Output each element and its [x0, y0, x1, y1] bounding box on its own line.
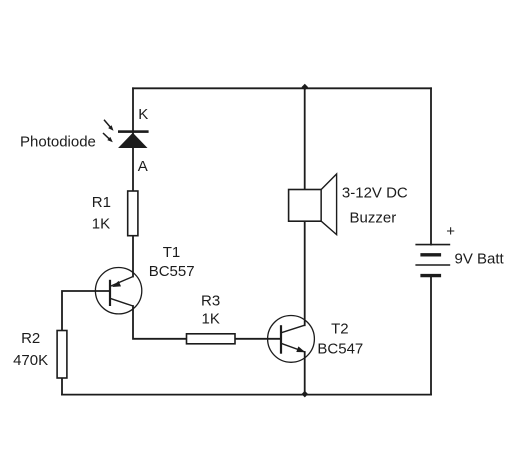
photodiode light arrow 1 [104, 120, 114, 131]
wire middle vertical top to buzzer [304, 88, 306, 190]
wire T2 emitter to bottom rail [304, 352, 306, 395]
wire buzzer to T2 collector [304, 223, 306, 326]
transistor T2 circle [268, 316, 315, 363]
wire top horizontal [133, 87, 431, 89]
wire left vertical through photodiode to R1 [132, 88, 134, 191]
wire T1 collector down and right to R3 [133, 306, 187, 339]
wire R3 right to T2 base [235, 338, 281, 340]
svg-text:BC547: BC547 [317, 340, 363, 357]
wire right vertical to battery plus [430, 88, 432, 244]
photodiode D1 triangle [118, 133, 147, 148]
buzzer speaker horn [321, 174, 336, 235]
photodiode D1 cathode bar [118, 130, 149, 133]
svg-text:K: K [138, 106, 148, 123]
transistor T1 base bar [109, 280, 111, 306]
transistor T2 emitter line [281, 343, 305, 352]
buzzer speaker box [289, 190, 322, 222]
svg-text:R1: R1 [92, 194, 111, 211]
transistor T1 collector line [110, 298, 133, 306]
svg-text:470K: 470K [13, 352, 48, 369]
svg-text:R3: R3 [201, 292, 220, 309]
battery B1 plate short thick 2 [420, 274, 441, 277]
node junction top [302, 84, 309, 91]
svg-text:Photodiode: Photodiode [20, 133, 96, 150]
transistor T1 emitter arrow (PNP) [112, 281, 121, 287]
svg-text:A: A [138, 158, 148, 175]
transistor T1 circle [95, 268, 141, 314]
svg-text:1K: 1K [92, 215, 110, 232]
svg-text:9V Batt: 9V Batt [455, 251, 505, 268]
transistor T2 emitter arrow (NPN) [296, 346, 305, 352]
transistor T1 emitter line [110, 277, 133, 287]
svg-text:1K: 1K [202, 311, 220, 328]
svg-text:Buzzer: Buzzer [350, 210, 397, 227]
wire R1 bottom to T1 emitter [132, 236, 134, 277]
svg-text:T1: T1 [163, 244, 181, 261]
node junction bottom [302, 391, 309, 398]
wire battery minus to bottom rail [430, 276, 432, 394]
battery B1 plate long top [415, 244, 450, 246]
resistor R1 body [128, 191, 138, 236]
svg-text:+: + [446, 223, 455, 240]
resistor R2 body [57, 331, 67, 379]
transistor T2 collector line [281, 325, 305, 333]
svg-text:3-12V DC: 3-12V DC [342, 185, 408, 202]
photodiode light arrow 2 [103, 133, 113, 142]
battery B1 plate short thick 1 [420, 253, 441, 256]
svg-text:T2: T2 [331, 321, 349, 338]
transistor T2 base bar [280, 325, 282, 354]
svg-text:R2: R2 [21, 330, 40, 347]
wire bottom rail [62, 394, 431, 396]
svg-text:BC557: BC557 [149, 263, 195, 280]
resistor R3 body [187, 334, 236, 344]
battery B1 plate long bottom [415, 264, 450, 266]
wire R2 bottom to bottom rail [61, 378, 63, 395]
wire T1 base to R2 [62, 291, 110, 331]
